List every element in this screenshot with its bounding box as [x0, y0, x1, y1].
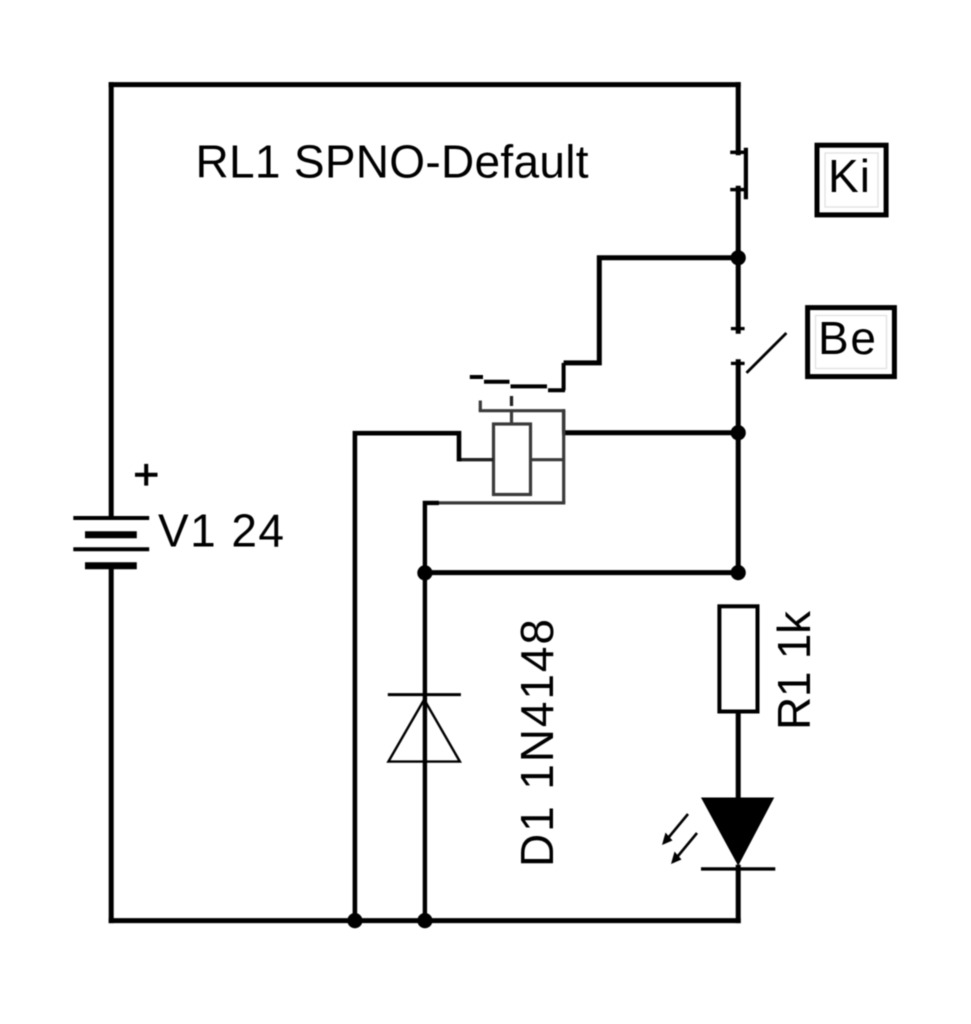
battery V1 plate 3 (long): [73, 547, 149, 551]
LED D2 triangle: [702, 798, 774, 865]
relay RL1 armature tick: [510, 396, 513, 406]
battery V1 plate 2 (short): [85, 531, 137, 538]
LED arrow 1: [662, 814, 688, 845]
relay RL1 mechanical link (stepped dashed line): [470, 377, 565, 390]
wire node A branch to relay link: [564, 258, 739, 363]
relay RL1 frame (gray): [439, 401, 566, 503]
wire node C to node C2: [425, 570, 738, 575]
wire coil left to bottom rail: [355, 433, 459, 920]
wire right top to Ki contact: [736, 82, 741, 155]
node C2 junction dot: [731, 565, 746, 580]
svg-text:RL1 SPNO-Default: RL1 SPNO-Default: [196, 136, 589, 188]
LED arrow 2: [671, 833, 697, 864]
svg-text:Be: Be: [818, 312, 876, 364]
wire R1 to LED: [736, 712, 741, 801]
svg-text:V1 24: V1 24: [158, 505, 284, 557]
wire node B frame vertical: [562, 411, 565, 433]
wire Be bottom to node B: [736, 359, 741, 433]
wire coil bottom to node C: [425, 503, 439, 573]
relay RL1 coil: [494, 424, 531, 495]
node A junction dot: [731, 250, 746, 265]
wire node A branch vertical end: [562, 363, 566, 391]
LED cathode bar: [701, 867, 775, 870]
diode D1 cathode bar: [388, 693, 461, 696]
battery plus sign: [135, 464, 158, 486]
wire node B to relay frame: [562, 430, 738, 435]
switch Be (open): [731, 329, 787, 373]
svg-text:R1 1k: R1 1k: [768, 610, 820, 730]
node B junction dot: [731, 425, 746, 440]
wire Ki bottom to node A: [736, 186, 741, 258]
battery V1 plate 1 (long +): [73, 516, 149, 520]
wire left upper (battery +): [109, 82, 114, 518]
relay coil left lead: [459, 458, 494, 461]
wire diode branch vertical: [423, 573, 427, 921]
contact Ki (closed relay contact): [730, 148, 746, 200]
wire left lower (battery -): [109, 566, 114, 923]
diode D1 triangle: [388, 700, 460, 762]
wire LED to bottom rail: [736, 865, 741, 923]
junction dot bottom diode: [417, 913, 432, 928]
node C junction dot: [417, 565, 432, 580]
svg-text:D1 1N4148: D1 1N4148: [511, 619, 563, 867]
wire bottom rail: [109, 918, 741, 923]
battery V1 plate 4 (short -): [85, 562, 137, 569]
wire node B down to node C2: [736, 433, 741, 573]
wire node A to switch Be: [736, 258, 741, 334]
label box Ki: [817, 145, 886, 215]
resistor R1 body: [719, 606, 757, 711]
wire top rail: [109, 82, 741, 87]
junction dot bottom left: [347, 913, 362, 928]
svg-text:Ki: Ki: [828, 150, 870, 202]
label box Be: [808, 308, 895, 377]
